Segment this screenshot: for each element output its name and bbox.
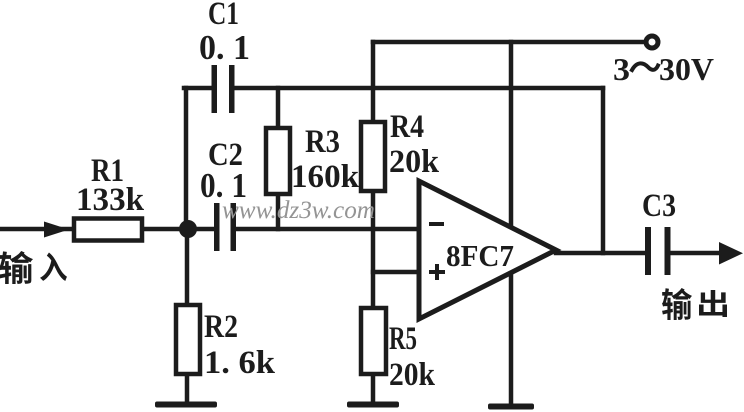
resistor R2 body <box>176 305 200 374</box>
capacitor C2 plates <box>214 203 220 251</box>
wire: C2 right plate to op-amp inverting input <box>236 227 419 232</box>
wire: node A up the left column <box>184 88 189 229</box>
output label 输出 (drawn glyph paths) <box>662 288 727 320</box>
svg-text:3: 3 <box>613 51 630 87</box>
svg-text:R4: R4 <box>390 109 424 145</box>
svg-text:1. 6k: 1. 6k <box>204 345 276 381</box>
resistor R5 body <box>361 308 386 374</box>
output arrowhead <box>719 242 743 265</box>
wire: input lead to R1 <box>2 227 74 232</box>
svg-text:C3: C3 <box>642 188 676 224</box>
wire: R2 bottom stub to ground <box>185 374 190 403</box>
wire: R3 bottom stub <box>276 194 281 229</box>
svg-text:30V: 30V <box>659 51 714 87</box>
op-amp U1 8FC7 triangle <box>419 181 556 319</box>
wire: feedback right column down to output <box>601 88 606 253</box>
capacitor C1 plates <box>212 65 218 113</box>
wire: R1 to node A <box>142 227 214 232</box>
svg-text:160k: 160k <box>291 159 360 195</box>
wire: node A down to R2 <box>185 229 190 305</box>
wire: supply rail <box>373 40 644 45</box>
svg-text:R2: R2 <box>204 309 238 345</box>
power terminal circle 3~30V <box>646 36 658 48</box>
svg-text:133k: 133k <box>76 182 145 218</box>
resistor R3 body <box>266 128 290 194</box>
ground below R5 <box>347 402 399 408</box>
wire: top feedback line left segment to C1 <box>184 86 212 91</box>
node A junction dot <box>179 220 197 238</box>
ground below R2 <box>155 402 217 408</box>
wire: R4 top stub from rail <box>371 42 376 122</box>
wire: R4 bottom down through main line to + input node <box>371 191 376 308</box>
resistor R4 body <box>361 122 385 191</box>
wire: non-inverting input line <box>373 270 419 275</box>
svg-text:R5: R5 <box>389 321 417 357</box>
op-amp non-inverting input plus sign <box>429 270 445 274</box>
svg-text:8FC7: 8FC7 <box>446 238 514 273</box>
op-amp inverting input minus sign <box>429 222 444 226</box>
wire: C3 to output arrow <box>671 251 721 256</box>
capacitor C3 plates <box>645 227 651 275</box>
wire: top feedback line from C1 to right corner <box>234 86 603 91</box>
ground below op-amp <box>488 404 534 410</box>
svg-text:20k: 20k <box>389 357 436 393</box>
svg-text:20k: 20k <box>389 144 440 180</box>
svg-text:R3: R3 <box>305 124 340 160</box>
svg-text:www.dz3w.com: www.dz3w.com <box>222 197 375 224</box>
wire: op-amp power column from rail to ground (passes behind triangle) <box>509 42 514 405</box>
wire: R3 top stub <box>276 88 281 128</box>
wire: op-amp output to C3 <box>556 251 645 256</box>
svg-text:0. 1: 0. 1 <box>199 28 250 67</box>
tilde of 3~30V <box>632 63 658 70</box>
wire: R5 bottom stub to ground <box>371 374 376 403</box>
input direction arrowhead <box>44 222 69 238</box>
input label 输入 (drawn glyph paths) <box>0 251 67 284</box>
resistor R1 body <box>74 219 142 241</box>
